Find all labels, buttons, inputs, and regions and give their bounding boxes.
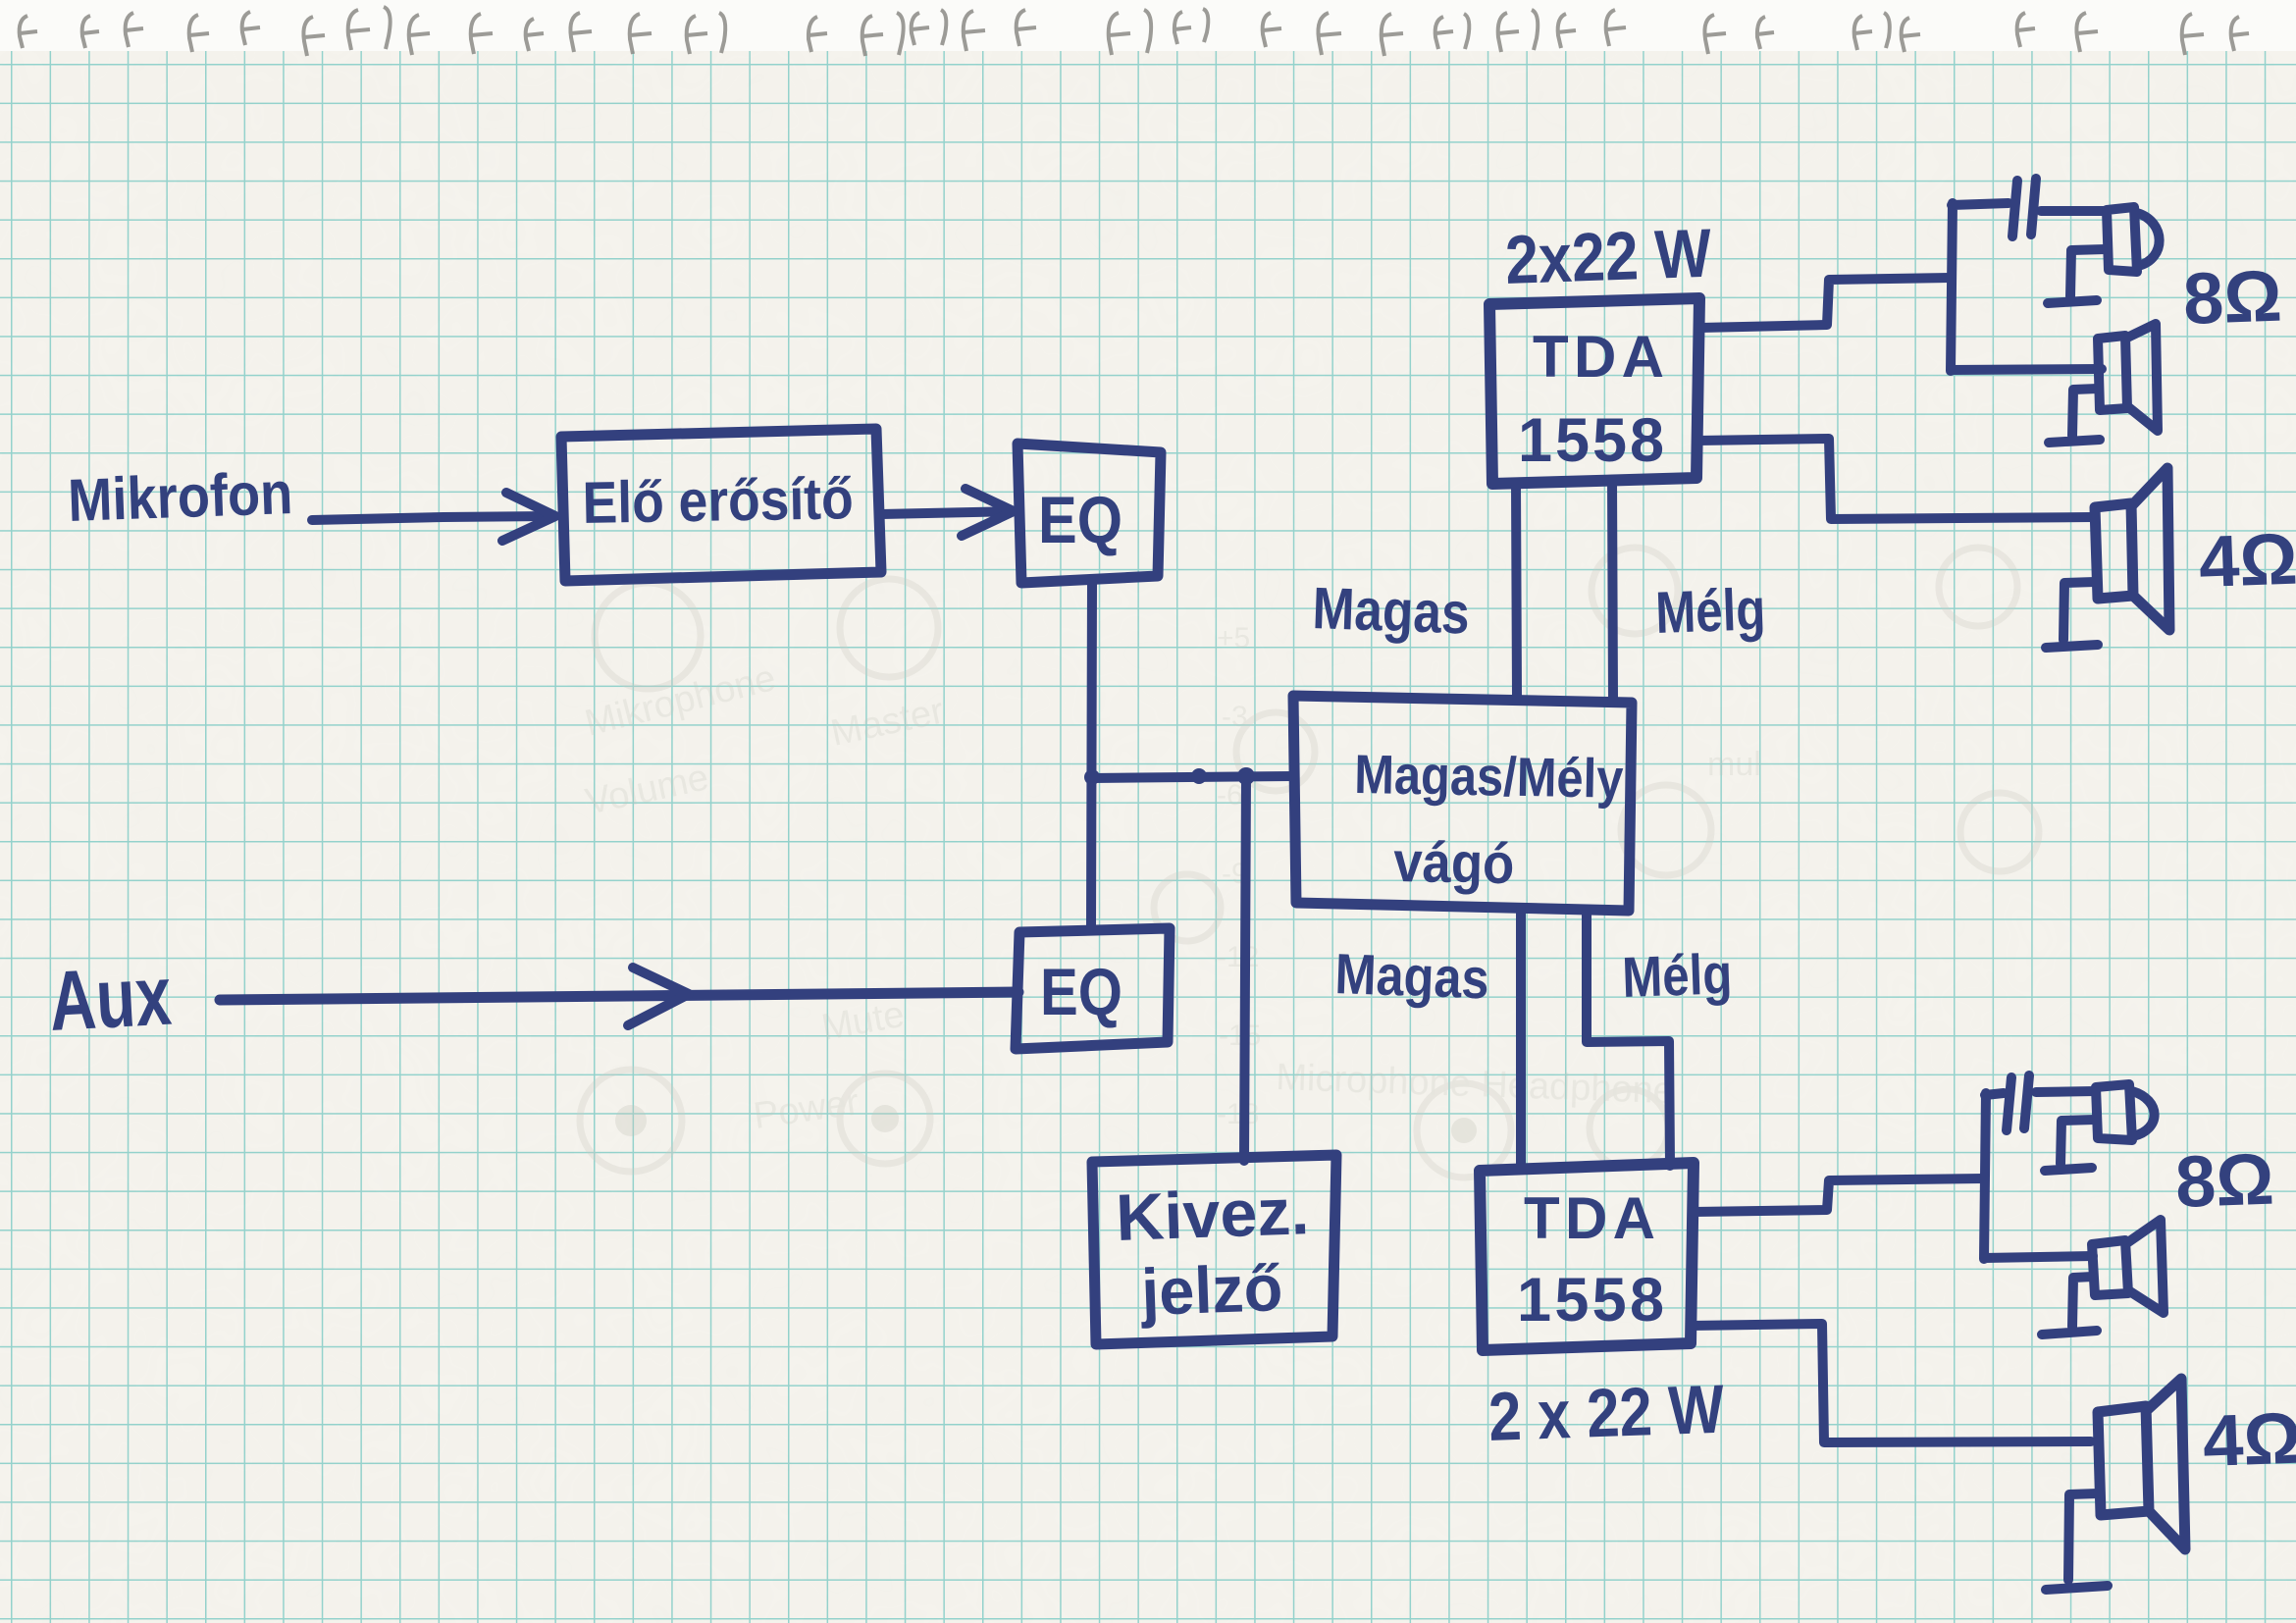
wire TDA1 Magas input xyxy=(1516,484,1517,698)
svg-text:EQ: EQ xyxy=(1038,483,1122,557)
wire vágó Mély output to TDA2 xyxy=(1587,910,1670,1166)
block EQ U2 (mic equalizer) xyxy=(1018,444,1161,583)
woofer LS5 (8 ohm 2) xyxy=(2092,1220,2164,1313)
svg-text:Magas: Magas xyxy=(1312,575,1471,647)
wire vágó Magas output to TDA2 xyxy=(1516,910,1526,1168)
svg-text:Elő erősítő: Elő erősítő xyxy=(582,465,854,536)
block Elő erősítő (preamp) xyxy=(561,429,881,581)
wire TDA1 top output to tweeter group xyxy=(1699,278,1951,328)
svg-text:Kivez.: Kivez. xyxy=(1115,1175,1310,1255)
woofer LS2 (8 ohm) xyxy=(2098,324,2158,431)
block TDA 1558 U4 (bottom power amp) xyxy=(1480,1163,1694,1350)
tweeter LS4 (8 ohm horn 2) xyxy=(2096,1084,2155,1140)
arrowhead on Aux wire xyxy=(628,968,689,1025)
svg-text:8Ω: 8Ω xyxy=(2182,255,2283,340)
arrowhead into EQ1 xyxy=(962,489,1014,536)
ground tweeter 1 xyxy=(2048,249,2106,303)
svg-text:Mélg: Mélg xyxy=(1654,576,1766,646)
tweeter LS1 (8 ohm horn) xyxy=(2107,207,2160,272)
svg-text:-6: -6 xyxy=(1217,779,1243,811)
svg-text:4Ω: 4Ω xyxy=(2202,1397,2296,1482)
svg-text:-18: -18 xyxy=(1217,1098,1259,1130)
ground speaker LS3 xyxy=(2046,582,2098,648)
wire tweeter loop 2 xyxy=(1984,1091,2095,1259)
ground tweeter 2 xyxy=(2045,1120,2095,1171)
wire EQ1 down to EQ2 xyxy=(1091,583,1092,925)
svg-text:Magas: Magas xyxy=(1334,942,1490,1011)
svg-text:2x22 W: 2x22 W xyxy=(1504,215,1713,298)
block Kivez. jelző (output indicator) xyxy=(1092,1155,1336,1344)
wire TDA1 bottom output to 4ohm speaker xyxy=(1697,439,2092,519)
wire bus EQ outputs to vágó xyxy=(1092,776,1292,778)
wire Aux to EQ2 xyxy=(220,992,1018,1000)
svg-text:4Ω: 4Ω xyxy=(2198,518,2296,602)
wire TDA2 bottom output to 4ohm speaker 2 xyxy=(1691,1324,2091,1442)
block EQ U3 (aux equalizer) xyxy=(1016,928,1170,1049)
svg-text:Magas/Mély: Magas/Mély xyxy=(1354,743,1624,810)
wire preamp to EQ1 xyxy=(881,511,1017,514)
wire tweeter loop 1 xyxy=(1951,203,2106,371)
svg-text:-12: -12 xyxy=(1217,941,1259,973)
svg-text:TDA: TDA xyxy=(1524,1185,1655,1251)
svg-text:mul: mul xyxy=(1707,746,1761,783)
block TDA 1558 U1 (top power amp) xyxy=(1489,298,1699,484)
svg-text:EQ: EQ xyxy=(1040,955,1122,1029)
svg-text:TDA: TDA xyxy=(1533,324,1664,390)
white torn top strip xyxy=(0,0,2296,51)
ground woofer 1 xyxy=(2049,389,2100,443)
speaker LS3 (4 ohm big) xyxy=(2095,468,2169,630)
svg-text:vágó: vágó xyxy=(1393,830,1515,896)
wire branch down to Kivez jelző xyxy=(1244,777,1246,1161)
svg-text:8Ω: 8Ω xyxy=(2174,1138,2275,1223)
block Magas/Mély vágó (high/low cut filter) xyxy=(1293,696,1632,911)
junction EQ bus xyxy=(1084,769,1100,785)
junction blob xyxy=(1191,768,1207,784)
svg-text:Mikrofon: Mikrofon xyxy=(67,459,293,534)
svg-text:jelző: jelző xyxy=(1138,1251,1283,1330)
capacitor C2 (tweeter crossover 2) xyxy=(2007,1075,2029,1130)
svg-text:Mélg: Mélg xyxy=(1621,942,1733,1010)
ground speaker LS6 xyxy=(2046,1493,2108,1590)
wire TDA2 top output to tweeter group 2 xyxy=(1694,1178,1984,1212)
junction to Kivez branch xyxy=(1237,767,1255,785)
svg-text:Aux: Aux xyxy=(47,949,174,1049)
wire TDA1 Mély input xyxy=(1612,481,1613,701)
speaker LS6 (4 ohm big 2) xyxy=(2098,1379,2185,1549)
svg-text:-3: -3 xyxy=(1222,701,1248,733)
svg-text:2 x 22 W: 2 x 22 W xyxy=(1487,1371,1726,1455)
ground woofer 2 xyxy=(2042,1277,2097,1335)
arrowhead into preamp xyxy=(502,493,555,541)
capacitor C1 (tweeter crossover) xyxy=(2012,179,2036,236)
svg-text:+5: +5 xyxy=(1217,622,1250,654)
wire Mikrofon to preamp xyxy=(312,516,549,520)
